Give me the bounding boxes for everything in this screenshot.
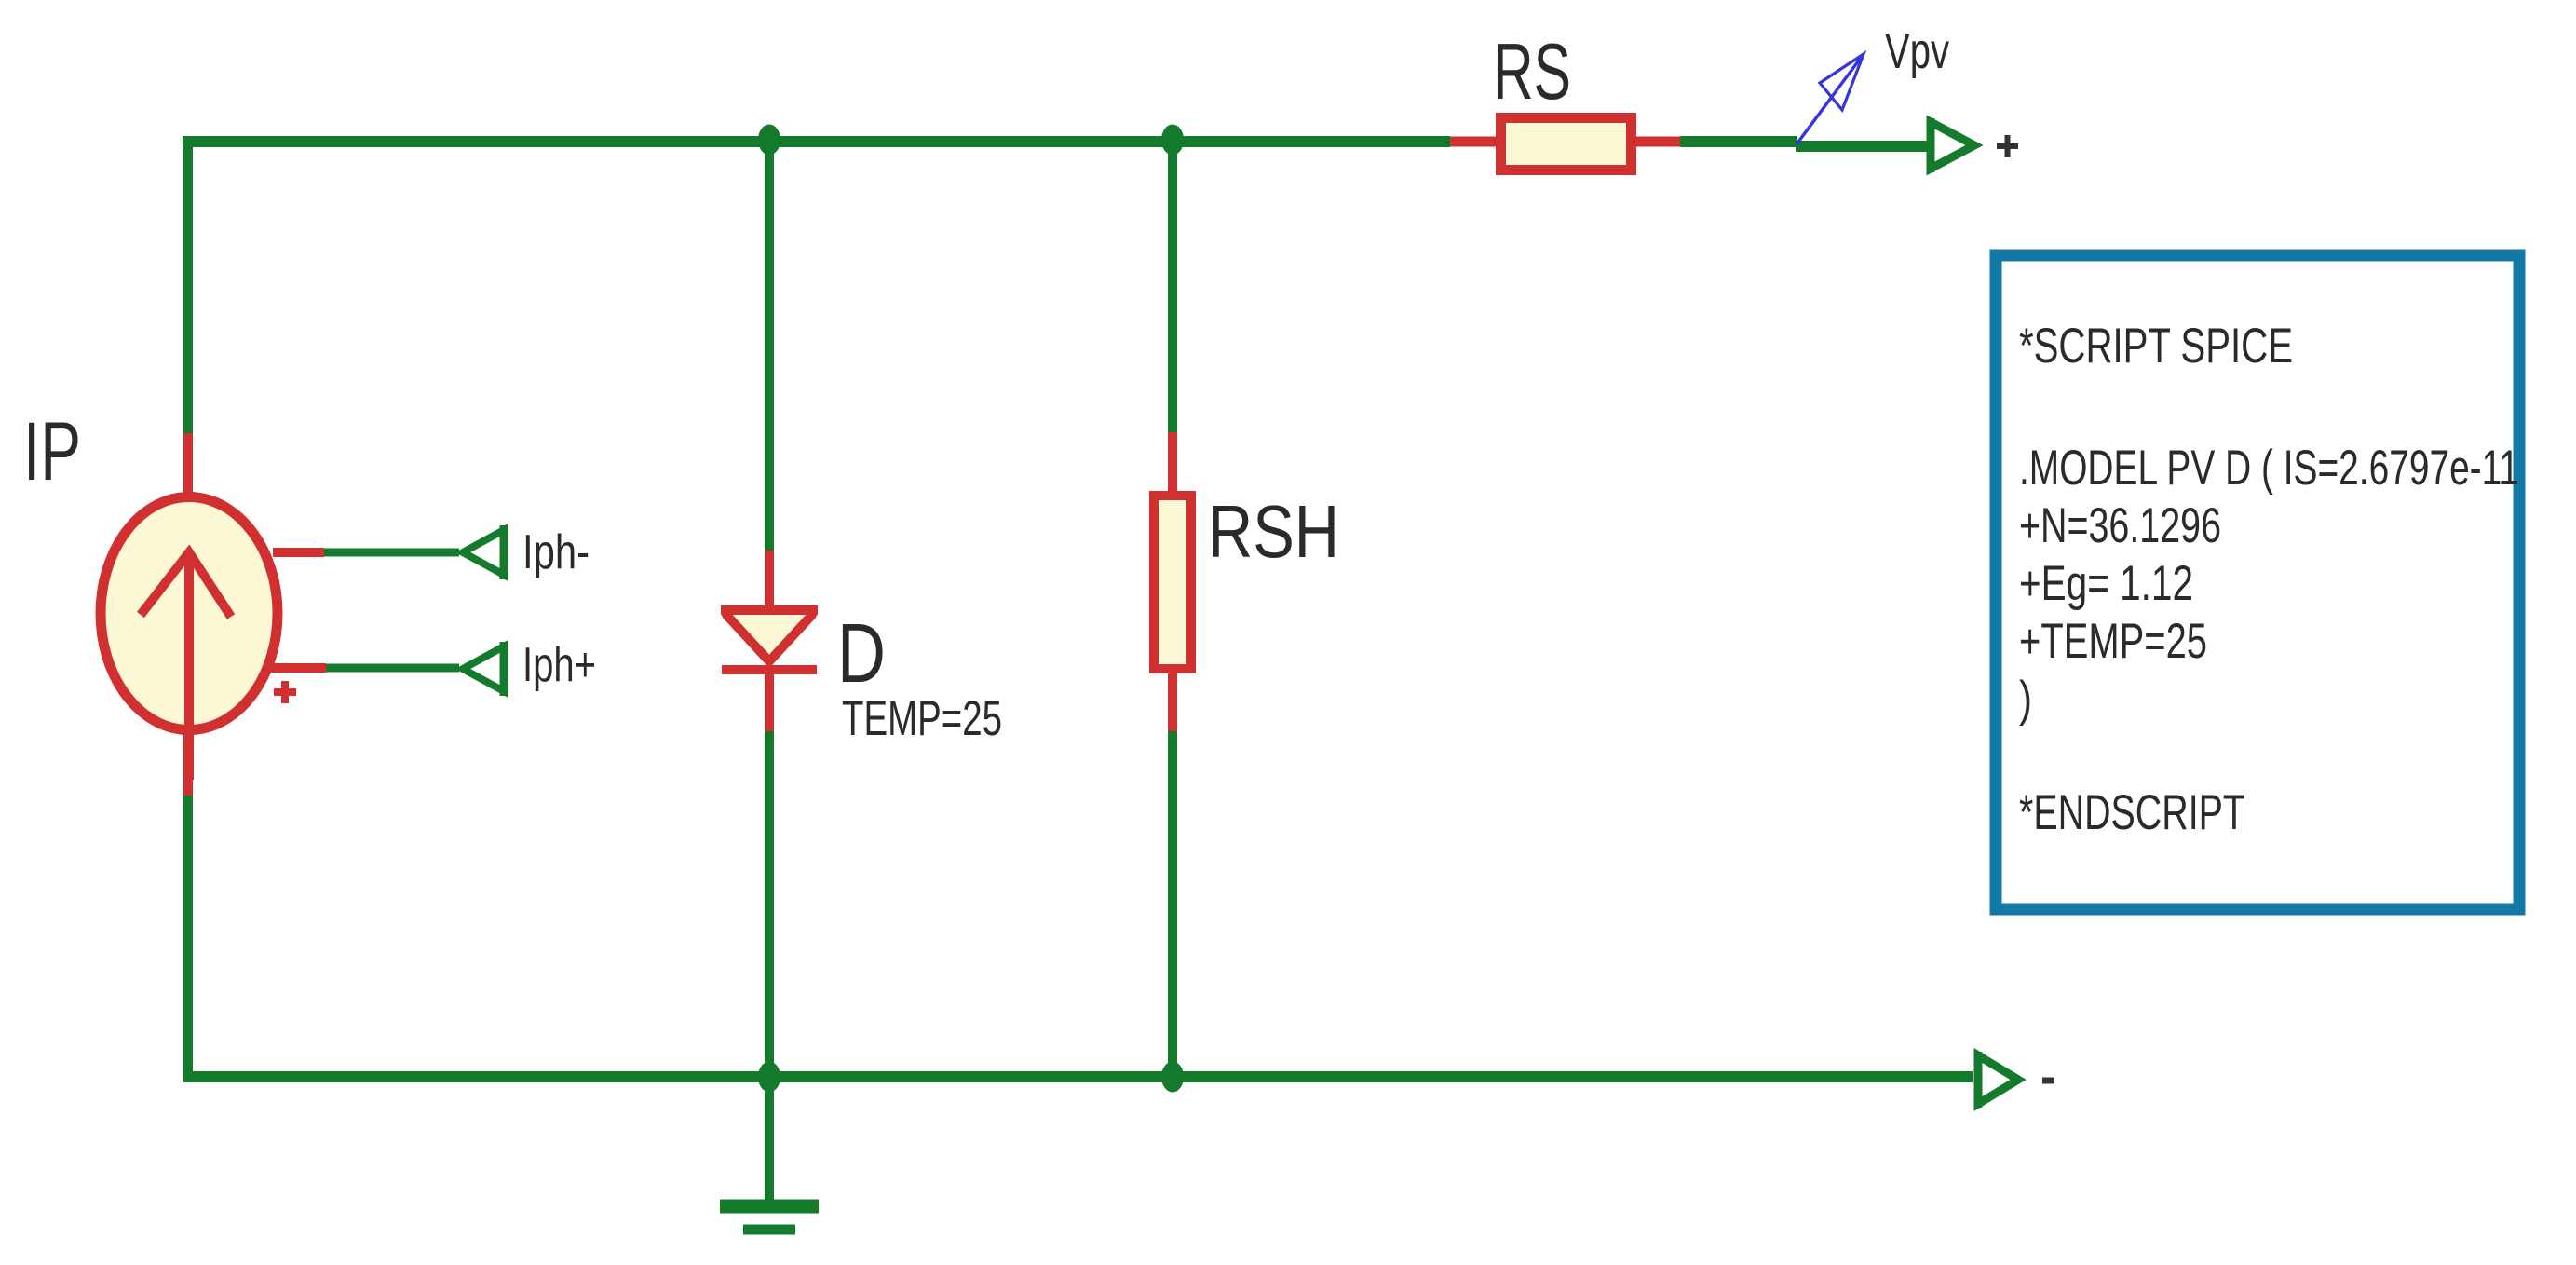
svg-text:RS: RS bbox=[1493, 28, 1571, 116]
svg-text:Iph+: Iph+ bbox=[522, 638, 596, 692]
svg-text:TEMP=25: TEMP=25 bbox=[842, 691, 1002, 746]
svg-text:Vpv: Vpv bbox=[1885, 23, 1949, 79]
svg-text:+N=36.1296: +N=36.1296 bbox=[2019, 498, 2221, 553]
svg-text:+Eg= 1.12: +Eg= 1.12 bbox=[2019, 556, 2193, 611]
svg-text:*ENDSCRIPT: *ENDSCRIPT bbox=[2019, 785, 2245, 840]
svg-text:RSH: RSH bbox=[1208, 490, 1339, 573]
svg-text:Iph-: Iph- bbox=[522, 525, 590, 579]
svg-text:*SCRIPT SPICE: *SCRIPT SPICE bbox=[2019, 319, 2293, 374]
svg-text:.MODEL PV D ( IS=2.6797e-11: .MODEL PV D ( IS=2.6797e-11 bbox=[2019, 441, 2519, 496]
svg-text:+TEMP=25: +TEMP=25 bbox=[2019, 614, 2207, 669]
svg-text:IP: IP bbox=[23, 404, 81, 497]
svg-text:D: D bbox=[837, 607, 886, 701]
svg-text:): ) bbox=[2019, 672, 2032, 727]
